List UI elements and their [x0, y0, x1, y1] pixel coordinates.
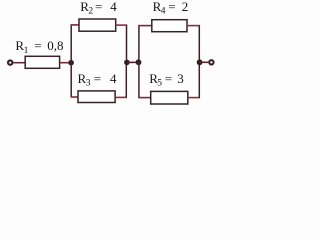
svg-text:2: 2	[182, 0, 189, 14]
svg-text:4: 4	[110, 71, 117, 86]
svg-text:2: 2	[88, 7, 93, 17]
svg-text:=: =	[168, 0, 175, 14]
label R3 = 4	[78, 71, 118, 89]
wire: bottom-right corner up to junction B	[125, 62, 127, 97]
junction D	[197, 59, 203, 65]
wire: R4 to second-section top-right corner	[187, 25, 200, 27]
svg-text:1: 1	[24, 46, 29, 56]
wire: top-left corner to R2	[71, 24, 80, 26]
wire: corner down to junction D	[198, 26, 200, 63]
wire: corner to R5	[138, 97, 151, 99]
junction A	[68, 60, 74, 66]
wire: R5 to second-section bottom-right corner	[188, 97, 200, 99]
resistor R1	[25, 56, 59, 68]
svg-text:0,8: 0,8	[47, 38, 63, 53]
svg-text:=: =	[165, 71, 172, 86]
svg-text:5: 5	[157, 79, 162, 89]
junction C	[136, 59, 142, 65]
wire: junction D to right terminal	[200, 61, 209, 63]
wire: R3 to bottom-right corner	[115, 96, 127, 98]
wire: corner up to junction D	[198, 62, 200, 97]
wire: R1 to junction A	[60, 62, 72, 64]
wire: vertical through junction A (top rail to bottom rail)	[70, 25, 72, 97]
svg-text:4: 4	[161, 7, 166, 17]
svg-text:=: =	[95, 0, 102, 14]
resistor R3	[78, 91, 115, 103]
label R2 = 4	[80, 0, 117, 17]
wire: bottom-left corner to R3	[71, 96, 79, 98]
label R1 = 0,8	[15, 38, 63, 56]
svg-text:=: =	[34, 38, 41, 53]
label R5 = 3	[149, 71, 184, 89]
wire: corner to R4	[138, 25, 152, 27]
resistor R2	[79, 19, 116, 31]
resistor R4	[152, 20, 187, 32]
junction B	[124, 60, 130, 66]
wire: junction B to junction C	[127, 61, 139, 63]
svg-text:3: 3	[86, 78, 91, 88]
wire: R2 to top-right corner	[116, 24, 128, 26]
wire: vertical through junction C (top rail to bottom rail)	[138, 26, 140, 98]
terminal: right output	[209, 60, 213, 64]
wire: top-right corner down to junction B	[126, 25, 128, 62]
wire: left terminal to R1	[13, 62, 25, 64]
svg-text:4: 4	[110, 0, 117, 14]
svg-text:=: =	[94, 71, 101, 86]
resistor R5	[151, 91, 188, 104]
terminal: left input	[8, 60, 12, 64]
svg-text:3: 3	[177, 71, 184, 86]
label R4 = 2	[153, 0, 189, 17]
